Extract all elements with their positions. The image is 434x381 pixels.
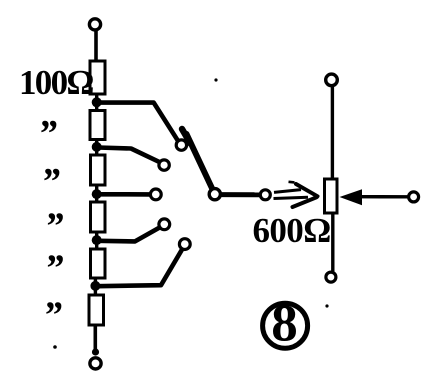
- ditto mark (100Ω) for R6: [43, 295, 62, 337]
- node J3 (junction R3/R4): [92, 185, 102, 202]
- rheostat wiper terminal: [409, 192, 419, 202]
- wire rheostat bottom: [331, 213, 334, 272]
- terminal top of rheostat: [326, 74, 338, 86]
- switch contact C4: [159, 219, 170, 230]
- connection arrow (double arrow to rheostat): [274, 182, 318, 207]
- svg-text:8: 8: [271, 295, 298, 353]
- wire R6 to bottom terminal: [94, 325, 98, 355]
- switch contact C1: [176, 140, 186, 150]
- svg-text:100Ω: 100Ω: [19, 63, 93, 102]
- ditto mark (100Ω) for R3: [41, 161, 60, 203]
- figure number 8 (circled): [263, 295, 308, 353]
- rheostat R7 body (600Ω): [325, 179, 338, 213]
- ditto mark (100Ω) for R5: [45, 248, 64, 290]
- resistor R5: [91, 249, 106, 278]
- wire J2 to contact C2: [98, 148, 160, 163]
- wire J3 to contact C3: [98, 192, 150, 197]
- terminal A (top of resistor chain): [89, 19, 100, 30]
- wire J5 to contact C5: [97, 249, 182, 286]
- node J2 (junction R2/R3): [92, 139, 102, 155]
- svg-text:”: ”: [43, 295, 62, 337]
- switch pivot P: [209, 189, 220, 200]
- resistor R3: [91, 155, 106, 185]
- resistor R2: [90, 111, 105, 140]
- ditto mark (100Ω) for R2: [38, 113, 57, 155]
- wire pivot to output terminal: [220, 192, 261, 197]
- label 100Ω for R1: [19, 63, 93, 102]
- wire J1 to contact C1: [98, 103, 179, 142]
- node J4 (junction R4/R5): [92, 232, 102, 249]
- svg-text:”: ”: [38, 113, 57, 155]
- switch contact C5: [179, 239, 190, 250]
- wire J4 to contact C4: [98, 227, 161, 241]
- stray dot period bottom-left: [53, 345, 57, 349]
- output terminal C6: [260, 190, 270, 200]
- terminal B (bottom of resistor chain): [90, 358, 101, 369]
- node J5 (junction R5/R6): [90, 278, 100, 295]
- svg-text:”: ”: [41, 161, 60, 203]
- resistor R6: [89, 295, 104, 325]
- svg-text:”: ”: [45, 248, 64, 290]
- label 600Ω: [253, 211, 331, 250]
- resistor R1: [90, 61, 105, 94]
- rheostat wiper arrow and terminal wire: [340, 189, 410, 205]
- node J1 (junction R1/R2): [92, 94, 102, 110]
- terminal bottom of rheostat: [326, 272, 336, 282]
- switch wiper arm S1: [182, 129, 214, 193]
- svg-text:”: ”: [45, 206, 64, 248]
- switch contact C3: [150, 189, 161, 200]
- wire top terminal to R1: [94, 30, 98, 62]
- stray speck near figure number: [325, 304, 328, 307]
- svg-text:600Ω: 600Ω: [253, 211, 331, 250]
- stray speck near top: [214, 78, 217, 81]
- resistor R4: [91, 202, 106, 232]
- switch contact C2: [159, 160, 169, 170]
- node below R6: [92, 348, 99, 355]
- wire rheostat top: [331, 86, 334, 180]
- ditto mark (100Ω) for R4: [45, 206, 64, 248]
